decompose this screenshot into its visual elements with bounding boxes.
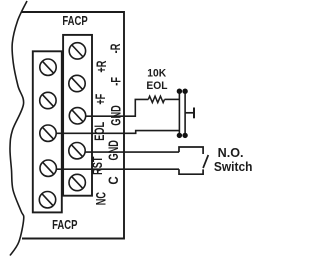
svg-text:GND: GND [110,105,124,125]
terminal screws: left strip [39,59,56,208]
junction dots on EOL wire pair [177,89,188,139]
svg-text:N.O.: N.O. [218,146,244,160]
svg-text:EOL: EOL [146,79,167,92]
wire D: left terminal 4 (RST) out to switch bottom [56,168,179,170]
svg-text:-R: -R [109,43,123,53]
right terminal strip [63,35,92,196]
wavy break line (left edge of FACP panel) [10,1,27,256]
stub wire with terminal bar [185,112,194,114]
FACP panel box (open left side) [21,12,124,239]
svg-text:EOL: EOL [94,122,108,141]
wire B: left terminal 3 (EOL) out to EOL resistor verticals, with jog [56,131,179,134]
wire A: right terminal 3 (GND) to resistor loop [85,99,148,116]
svg-text:FACP: FACP [62,15,88,29]
left terminal strip [33,51,62,212]
N.O. switch bottom contact [179,169,203,174]
wire: resistor to left vertical [165,98,180,100]
resistor R1 10K EOL zigzag [148,96,164,102]
svg-text:+R: +R [95,60,109,73]
terminal screws: right strip [69,43,86,191]
N.O. switch blade [203,155,208,168]
svg-text:10K: 10K [147,67,166,80]
N.O. switch top contact [179,147,203,154]
svg-text:+F: +F [95,94,109,105]
EOL pair: left vertical wire [178,91,180,135]
svg-text:Switch: Switch [214,160,253,175]
wire C: right terminal 4 (GND) to switch top [85,151,179,153]
svg-text:RST: RST [91,157,105,175]
svg-text:C: C [106,176,121,184]
svg-text:NC: NC [95,191,109,205]
EOL pair: right vertical wire [184,91,186,135]
svg-text:-F: -F [110,77,124,86]
svg-text:FACP: FACP [52,219,78,233]
svg-text:GND: GND [107,140,121,160]
